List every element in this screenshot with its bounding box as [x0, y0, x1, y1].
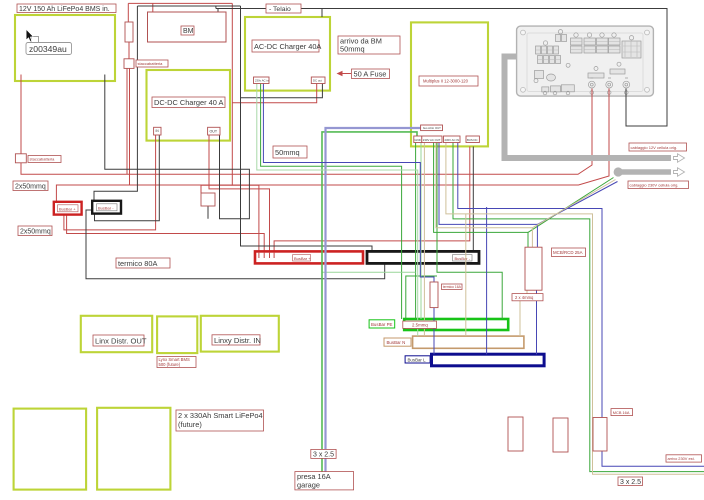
wire termico 80A run [86, 210, 385, 279]
label BusBar L [405, 356, 430, 363]
breaker termico 16A [430, 282, 438, 308]
label 3 x 2.5 left [311, 449, 336, 458]
svg-text:230v AC in: 230v AC in [255, 79, 269, 83]
svg-text:12V 150 Ah LiFePo4 BMS in.: 12V 150 Ah LiFePo4 BMS in. [19, 6, 110, 13]
svg-text:230V AC IN: 230V AC IN [445, 138, 460, 142]
cursor pointer [26, 30, 33, 42]
arrow 230V harness [674, 168, 685, 176]
label 2 x 330Ah Smart LiFePo4 future [176, 410, 264, 431]
connector Multiplus bus ACin OUT [421, 125, 443, 131]
busbar BusBar N [413, 336, 524, 348]
label cablaggio 230V cellula orig [628, 181, 689, 189]
svg-text:MCB/RCD 25A: MCB/RCD 25A [553, 250, 583, 255]
tooltip field z00349au [31, 37, 39, 43]
svg-text:z00349au: z00349au [29, 44, 67, 54]
panel numbered circles [543, 41, 547, 45]
connector Multiplus 230V AC IN [444, 136, 461, 143]
panel block 7 [622, 41, 641, 58]
svg-text:BusBar L: BusBar L [408, 358, 427, 363]
label 2x50mmq lower [18, 226, 52, 236]
svg-text:Linx Distr. OUT: Linx Distr. OUT [95, 337, 147, 346]
panel connector D [556, 35, 561, 42]
svg-text:BM: BM [183, 28, 194, 35]
battery box 12V 150Ah LiFePo4 BMS [15, 15, 115, 81]
svg-text:MCB 16A: MCB 16A [613, 410, 630, 415]
wire Multiplus AC-IN N to external [446, 143, 704, 475]
busbar BusBar L [432, 354, 545, 366]
busbar small BusBar- [92, 201, 121, 214]
staccabatteria switch 1 [124, 59, 134, 69]
wire 12V feed rail 2 from BusBar+ to panel [56, 89, 609, 204]
wire Multiplus GND PE drop [415, 143, 417, 320]
svg-text:Multiplus II 12-3000-120: Multiplus II 12-3000-120 [423, 79, 469, 84]
panel bottom row [542, 87, 549, 92]
svg-text:cablaggio 12V cellula orig.: cablaggio 12V cellula orig. [631, 145, 678, 150]
label AC-DC Charger 40A [252, 40, 319, 52]
wire battery plus to staccabatteria and 12V feed rail 1 [21, 75, 592, 175]
shunt square [201, 193, 215, 206]
svg-text:BusBar +: BusBar + [59, 206, 76, 211]
svg-text:DC out: DC out [313, 79, 322, 83]
wire Multiplus minus to long BusBar- [472, 147, 474, 252]
staccabatteria switch 2 [15, 154, 26, 163]
wire Multiplus AC-OUT N to MCB/RCD [436, 143, 532, 248]
svg-text:50mmq: 50mmq [275, 148, 300, 157]
busbar long BusBar- [367, 251, 479, 263]
svg-text:2 x 4mmq: 2 x 4mmq [515, 295, 534, 300]
wire small BusBar+ to long BusBar+ [67, 215, 265, 252]
label termico 80A [116, 258, 170, 268]
box BM battery monitor [148, 12, 227, 42]
svg-text:OUT: OUT [210, 130, 218, 134]
AC-DC Charger 40A box [245, 17, 330, 91]
wire Multiplus AC-OUT PE to MCB/RCD [434, 143, 528, 248]
breaker MCB/RCD 25A [525, 247, 542, 290]
wire Multiplus plus to long BusBar+ [274, 147, 470, 252]
panel oval 10 [547, 74, 556, 81]
label Multiplus II 12-3000-120 [419, 76, 478, 86]
wire presa garage blue [326, 128, 421, 472]
svg-text:50 A Fuse: 50 A Fuse [354, 70, 387, 79]
svg-text:DC-DC Charger 40 A: DC-DC Charger 40 A [154, 98, 223, 107]
breaker spare 1 [508, 417, 523, 451]
connector AC-DC 230V in [254, 77, 270, 84]
wire AC-DC DC out plus [232, 83, 316, 103]
wire AC-DC 230V in L through termico 16A [263, 83, 434, 354]
panel grid 8 [535, 71, 544, 79]
svg-text:arrivo 230V est.: arrivo 230V est. [668, 456, 695, 461]
wire shunt square down link [207, 206, 209, 219]
svg-text:BusBar +: BusBar + [294, 256, 311, 261]
panel relay block 3 [584, 38, 596, 45]
Linxy Distr. IN box [201, 316, 279, 352]
wire Multiplus AC-OUT L to MCB/RCD [439, 143, 537, 248]
label presa 16A garage [295, 472, 354, 490]
svg-text:BUS DC: BUS DC [467, 138, 478, 142]
label Linx Distr. OUT [93, 335, 144, 346]
label 2.5mmq [403, 321, 437, 328]
connector Multiplus 230V AC OUT [422, 136, 442, 143]
wire Multiplus N drop [423, 143, 425, 337]
wire Multiplus AC-IN L to MCB 16A [458, 143, 704, 467]
svg-text:2 x 330Ah Smart LiFePo4: 2 x 330Ah Smart LiFePo4 [178, 411, 263, 420]
wire chassis tick to AC-DC [321, 9, 323, 18]
Multiplus II 12-3000-120 box [411, 22, 488, 146]
connector DC-DC OUT [208, 127, 220, 135]
label DC-DC Charger 40 A [152, 97, 225, 108]
label MCB/RCD 25A [552, 248, 586, 257]
connector Multiplus BUS DC [466, 136, 479, 143]
wire AC-DC 230V in PE to BusBar PE [261, 83, 402, 319]
svg-text:termico 16A: termico 16A [443, 285, 462, 289]
wire ticks inside BusBar+ [259, 253, 274, 258]
connector Multiplus GND [414, 136, 422, 143]
label 3 x 2.5 right [618, 477, 643, 486]
thick gray 12V harness wire [505, 57, 672, 159]
DC-DC Charger 40A box [147, 70, 231, 141]
arrow 50 A Fuse [340, 73, 351, 75]
Linx Distr. OUT box [81, 316, 152, 352]
svg-text:230V AC OUT: 230V AC OUT [423, 138, 441, 142]
wire chassis down to small BusBar- [94, 6, 137, 201]
label - Telaio [266, 4, 301, 13]
busbar BusBar PE [404, 319, 508, 330]
connector DC-DC IN [154, 127, 161, 135]
svg-text:BusBar PE: BusBar PE [371, 322, 393, 327]
wire chassis rail upper [138, 5, 241, 7]
svg-text:2x50mmq: 2x50mmq [20, 229, 51, 236]
svg-text:(future): (future) [178, 420, 202, 429]
future battery box 1 [14, 409, 87, 490]
wire top red rail horizontal [128, 3, 259, 251]
fuse battery main [125, 22, 133, 42]
wire N branch [465, 214, 467, 336]
wire DC-DC OUT plus to long BusBar+ [209, 135, 270, 251]
wire chassis rail Telaio [216, 9, 667, 127]
label 12V 150Ah LiFePo4 BMS in [17, 4, 116, 13]
panel connector 9 [610, 69, 625, 74]
label BusBar PE [369, 320, 395, 328]
label staccabatteria 1 [136, 60, 168, 67]
panel relay 5 [588, 73, 604, 78]
wire DC-DC IN minus to small BusBar- [95, 135, 160, 221]
busbar long BusBar+ [255, 251, 363, 263]
wire light green PE aux [420, 143, 422, 320]
panel fuse grid left [536, 46, 541, 54]
label arrivo da BM 50mmq [338, 36, 400, 54]
label Linxy Distr. IN [212, 335, 260, 345]
label Lynx Smart BMS 500 future [157, 357, 196, 368]
SMALLBOXES [15, 22, 607, 452]
label termico 16A [442, 284, 463, 290]
label BusBar N [384, 338, 411, 346]
svg-text:bus ACin OUT: bus ACin OUT [423, 126, 441, 130]
wire top red rail to fuse [127, 3, 130, 185]
panel screws [521, 30, 650, 92]
wire DC-DC IN plus to small BusBar+ [64, 135, 156, 230]
original 12V fuse panel [517, 26, 654, 96]
svg-text:500 (future): 500 (future) [159, 362, 181, 367]
panel relay block 4 [609, 38, 621, 45]
svg-text:- Telaio: - Telaio [269, 6, 291, 13]
svg-text:2.5mmq: 2.5mmq [412, 323, 428, 328]
panel round terminal B [623, 81, 630, 88]
wire N from 2x4mmq [520, 290, 527, 336]
wire AC-DC 230V in N to BusBar N [257, 83, 418, 336]
wire presa garage green [322, 132, 417, 472]
wire chassis tick to BM [216, 6, 218, 12]
connector AC-DC DC out [311, 77, 325, 84]
busbar small BusBar+ [54, 202, 82, 215]
svg-text:2x50mmq: 2x50mmq [15, 184, 46, 191]
svg-text:Linxy Distr. IN: Linxy Distr. IN [214, 336, 261, 345]
label MCB 16A [611, 409, 633, 416]
wire AC-DC out minus to long BusBar- [241, 6, 373, 251]
svg-text:staccabatteria: staccabatteria [30, 157, 56, 162]
panel relay block 2 [571, 38, 583, 45]
wire PE link to right [437, 143, 502, 320]
wire PE rail short [406, 276, 437, 319]
label BM [181, 26, 194, 35]
svg-text:3 x 2.5: 3 x 2.5 [313, 452, 334, 459]
future battery box 2 [97, 408, 170, 490]
label cablaggio 12V cellula orig [629, 143, 687, 151]
wire shunt square link [201, 185, 232, 193]
panel round terminal N [606, 81, 613, 88]
svg-text:cablaggio 230V cellula orig.: cablaggio 230V cellula orig. [630, 183, 679, 188]
thick gray 230V harness wire [621, 169, 671, 175]
svg-text:AC-DC Charger 40A: AC-DC Charger 40A [254, 42, 321, 51]
arrow 12V harness [674, 154, 685, 162]
wire L branch to BusBar L [486, 207, 488, 354]
wire L diagonal from node [537, 182, 617, 225]
node 230V harness [614, 167, 623, 176]
wire light green rail [322, 271, 416, 273]
svg-text:GND: GND [415, 138, 421, 142]
svg-text:BusBar -: BusBar - [98, 205, 114, 210]
label 2x50mmq upper [13, 181, 48, 191]
svg-text:BusBar -: BusBar - [455, 256, 471, 261]
breaker MCB 16A [593, 418, 607, 452]
panel relay block 1 [597, 38, 609, 45]
wire BMS minus to DC-DC OUT minus [105, 75, 250, 219]
label 50 A Fuse [352, 69, 390, 79]
svg-text:termico 80A: termico 80A [118, 259, 158, 268]
wire L from 2x4mmq to BusBar L [536, 290, 538, 354]
label arrivo 230V est [666, 455, 702, 462]
svg-text:garage: garage [297, 481, 320, 490]
svg-text:staccabatteria: staccabatteria [138, 61, 164, 66]
label 2 x 4mmq upper [512, 294, 543, 301]
label staccabatteria 2 [28, 156, 61, 163]
wire N diagonal from node [532, 180, 615, 228]
svg-text:3 x 2.5: 3 x 2.5 [620, 479, 641, 486]
Lynx Smart BMS box [157, 316, 197, 353]
panel fuse texture lines [536, 41, 640, 60]
wire PE diagonal from node [528, 178, 614, 233]
wire Multiplus AC-IN PE to external [453, 143, 704, 472]
breaker spare 2 [553, 418, 568, 452]
panel round terminal C [588, 81, 595, 88]
svg-text:BusBar N: BusBar N [387, 340, 406, 345]
label 50mmq [273, 146, 307, 158]
svg-text:50mmq: 50mmq [340, 45, 365, 54]
